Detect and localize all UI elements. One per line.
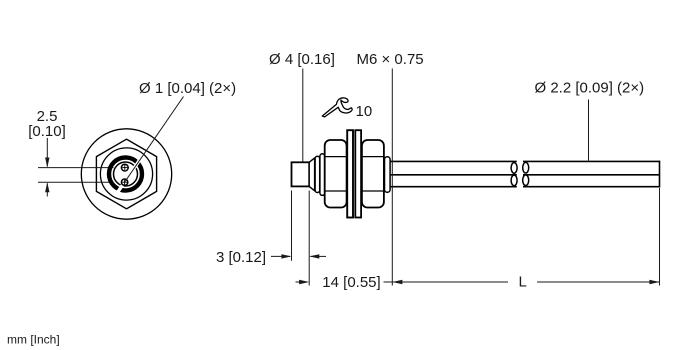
dimension 2.5 lower arrow <box>45 182 49 196</box>
svg-text:Ø 4 [0.16]: Ø 4 [0.16] <box>269 51 335 68</box>
front view: thread circle <box>100 148 152 200</box>
svg-text:[0.10]: [0.10] <box>28 123 66 140</box>
cable break squiggle right <box>523 162 529 185</box>
svg-text:M6 × 0.75: M6 × 0.75 <box>357 51 424 68</box>
extension line cable end <box>659 188 661 286</box>
svg-text:10: 10 <box>356 103 373 120</box>
taper cone <box>309 158 314 191</box>
crimp ring 2 <box>320 154 325 196</box>
probe tip <box>292 162 310 186</box>
front view: inner sleeve circle <box>114 162 138 186</box>
svg-text:Ø 1 [0.04] (2×): Ø 1 [0.04] (2×) <box>139 80 236 97</box>
front view: probe sleeve thick ring <box>109 158 142 191</box>
leader Ø4 <box>302 69 304 162</box>
extension line tip right <box>308 191 310 286</box>
dimension L right arrow <box>537 280 660 284</box>
dimension L left arrow <box>392 280 508 284</box>
dimension 2.5 upper arrow <box>45 138 49 168</box>
wrench icon <box>322 98 352 117</box>
svg-text:Ø 2.2 [0.09] (2×): Ø 2.2 [0.09] (2×) <box>535 80 645 97</box>
dimension 14 right tail <box>384 281 393 283</box>
flange washer bar 1 <box>347 130 353 217</box>
leader M6 / extension line <box>391 69 393 286</box>
dimension 3 left arrow <box>271 254 292 258</box>
svg-text:L: L <box>519 274 527 291</box>
cable break squiggle left <box>511 163 517 186</box>
hole 2 (bottom) <box>121 179 127 185</box>
dimension 3 right arrow <box>309 254 326 258</box>
leader line for hole label <box>125 97 184 183</box>
leader halo gap through ring <box>116 157 142 196</box>
leader Ø2.2 <box>588 100 590 161</box>
extension line upper (2.5 dim) <box>38 167 114 169</box>
crimp ring right <box>385 157 391 193</box>
hole 1 (top) <box>121 164 128 171</box>
flange washer bar 2 <box>355 130 361 217</box>
front view: flange washer outer circle <box>81 129 171 219</box>
hex body left half <box>325 140 347 208</box>
svg-text:mm [Inch]: mm [Inch] <box>7 333 60 347</box>
front view: hex nut <box>96 139 156 209</box>
cable right segment <box>523 161 660 188</box>
cable left segment <box>390 161 517 186</box>
dimension 14 left arrow <box>296 280 310 284</box>
hex body right half <box>362 140 384 208</box>
extension line lower (2.5 dim) <box>38 181 114 183</box>
svg-text:3 [0.12]: 3 [0.12] <box>216 249 266 266</box>
svg-text:14 [0.55]: 14 [0.55] <box>322 274 380 291</box>
extension line tip left <box>291 191 293 261</box>
crimp ring 1 <box>315 156 320 192</box>
